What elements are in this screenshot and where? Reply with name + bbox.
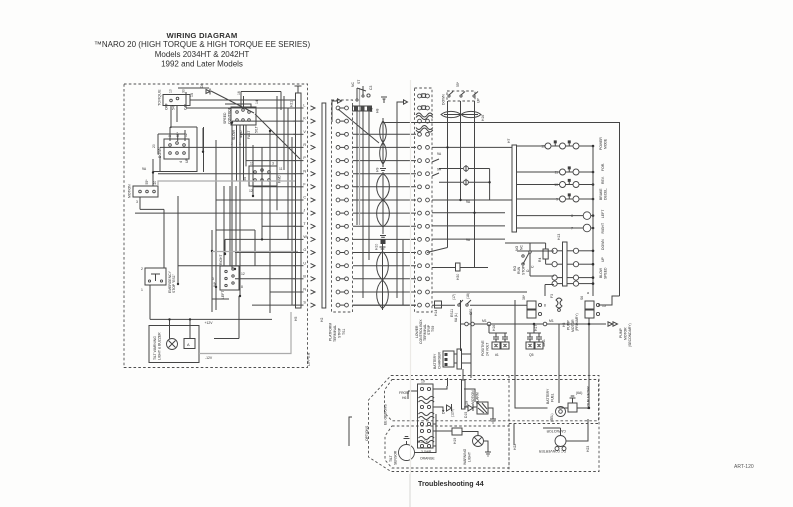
- junction dots upper box: [152, 121, 271, 320]
- label POWER MODE: [599, 137, 608, 150]
- svg-text:+12V: +12V: [205, 321, 214, 325]
- svg-text:9A: 9A: [466, 238, 471, 242]
- diode D15: [464, 404, 473, 418]
- label LOWER CONTROL BOX TERMINAL STRIP TS9: [415, 319, 435, 344]
- svg-text:Models 2034HT & 2042HT: Models 2034HT & 2042HT: [155, 50, 250, 59]
- OPTIONS outer dashed enclosure: [369, 376, 600, 472]
- wires motion alarm: [464, 389, 493, 414]
- svg-text:a: a: [587, 291, 589, 295]
- connector H13 bar: [557, 234, 567, 286]
- connector H14: [434, 301, 442, 316]
- svg-text:ORANGE: ORANGE: [420, 457, 435, 461]
- svg-text:SENSOR: SENSOR: [394, 450, 398, 465]
- relay row LEFT: [517, 212, 594, 220]
- svg-text:CAPACITOR: CAPACITOR: [546, 429, 566, 433]
- svg-text:PLATFORM: PLATFORM: [329, 323, 333, 341]
- svg-text:N: N: [303, 169, 306, 173]
- svg-text:H7: H7: [507, 139, 511, 143]
- svg-text:12: 12: [241, 272, 245, 276]
- relay row BRAKE DECEL: [517, 193, 594, 202]
- wires limit switches down: [427, 101, 475, 268]
- svg-text:H30: H30: [456, 274, 460, 280]
- module BATTERY CHARGER: [433, 349, 471, 369]
- svg-text:UP: UP: [185, 158, 189, 163]
- switch FWD-REV: [243, 162, 283, 194]
- svg-text:H5: H5: [294, 317, 298, 321]
- svg-text:WARNING: WARNING: [463, 448, 467, 465]
- label FROM H6: [399, 391, 409, 400]
- svg-text:DC CONVERTER: DC CONVERTER: [538, 449, 566, 453]
- svg-text:UP: UP: [601, 257, 605, 262]
- svg-text:LEFT: LEFT: [221, 291, 225, 299]
- svg-text:55*: 55*: [145, 179, 149, 185]
- twisted pair H9 middle: [376, 168, 390, 234]
- twisted pair H10 lower: [375, 244, 389, 310]
- non-EE options dashed enclosure: [385, 426, 509, 468]
- svg-text:MOTION: MOTION: [128, 184, 132, 198]
- svg-text:RIGHT: RIGHT: [601, 223, 605, 234]
- svg-text:G: G: [303, 248, 306, 252]
- scan fold line: [409, 474, 411, 507]
- limit switch MID: [456, 81, 465, 97]
- diode D8: [200, 84, 210, 95]
- relay row REV: [517, 179, 594, 188]
- svg-text:™NARO 20 (HIGH TORQUE & HIGH T: ™NARO 20 (HIGH TORQUE & HIGH TORQUE EE S…: [94, 40, 311, 49]
- svg-text:MOTOR: MOTOR: [624, 327, 628, 340]
- fuse F3 pump motor H6: [550, 294, 579, 332]
- svg-text:S: S: [303, 301, 306, 305]
- svg-text:H13: H13: [557, 234, 561, 240]
- arrow pump motor secondary: [608, 322, 632, 347]
- wire rows to connector H7: [432, 146, 512, 239]
- svg-text:14: 14: [190, 93, 194, 97]
- connector H21 bar: [290, 86, 302, 308]
- svg-text:(TEL): (TEL): [550, 414, 554, 422]
- wire mesh upper control box: [135, 88, 300, 339]
- connector H7 bar: [507, 139, 517, 232]
- connector H19: [462, 369, 469, 409]
- svg-text:#1: #1: [495, 353, 499, 357]
- svg-text:W: W: [303, 235, 307, 239]
- module DC CONVERTER: [538, 429, 590, 453]
- svg-text:16: 16: [237, 91, 241, 95]
- svg-text:H3: H3: [370, 108, 374, 112]
- svg-text:TS9: TS9: [431, 326, 435, 332]
- svg-text:(17): (17): [452, 294, 456, 300]
- svg-text:(6A): (6A): [576, 391, 582, 395]
- svg-text:M1: M1: [482, 319, 487, 323]
- svg-text:Troubleshooting: Troubleshooting: [418, 480, 474, 488]
- svg-text:H14: H14: [434, 310, 438, 316]
- lamp WARNING LIGHT: [462, 432, 491, 466]
- svg-text:LEFT: LEFT: [601, 210, 605, 218]
- svg-text:H10: H10: [375, 244, 379, 250]
- svg-text:DOWN: DOWN: [601, 239, 605, 250]
- svg-text:ART-120: ART-120: [734, 464, 754, 470]
- connector H19: [452, 428, 462, 444]
- EE OPTIONS dashed enclosure: [385, 380, 599, 421]
- svg-text:5/1T: 5/1T: [255, 126, 259, 133]
- svg-text:3: 3: [136, 200, 138, 204]
- relay row RIGHT: [517, 224, 594, 232]
- connector H2 bar: [320, 103, 326, 322]
- svg-text:BATTERY: BATTERY: [546, 388, 550, 404]
- switch TORQUE: [157, 89, 195, 110]
- wires battery fuel cluster: [515, 378, 590, 409]
- svg-text:D15: D15: [464, 412, 468, 418]
- svg-text:NC: NC: [520, 245, 524, 250]
- svg-text:SLOW: SLOW: [232, 129, 236, 140]
- svg-text:1: 1: [141, 288, 143, 292]
- upper control box dashed enclosure: [124, 84, 308, 368]
- connector H3: [353, 106, 374, 112]
- svg-text:9A: 9A: [437, 168, 442, 172]
- wire options left feeds: [349, 386, 452, 446]
- svg-text:FOR.: FOR.: [601, 163, 605, 171]
- limit switch UP: [473, 92, 481, 104]
- switch MOTION: [128, 167, 159, 204]
- svg-text:14: 14: [255, 100, 259, 104]
- twisted pair H8 upper: [376, 109, 387, 167]
- svg-text:NC: NC: [351, 82, 355, 87]
- svg-text:(SECONDARY): (SECONDARY): [628, 323, 632, 347]
- svg-text:STOP: STOP: [522, 265, 526, 275]
- connector H21 pin ticks: [294, 108, 304, 305]
- svg-text:BATTERY: BATTERY: [433, 353, 437, 369]
- svg-text:TILT WARNING: TILT WARNING: [153, 336, 157, 360]
- svg-text:ST: ST: [357, 80, 361, 84]
- svg-text:MODE: MODE: [604, 138, 608, 149]
- svg-text:8: 8: [241, 285, 243, 289]
- svg-text:WIRING DIAGRAM: WIRING DIAGRAM: [167, 31, 238, 40]
- label BLOW SPEED: [599, 267, 608, 279]
- svg-text:F3: F3: [550, 294, 554, 298]
- H13 contact rows: [552, 248, 594, 286]
- svg-text:H9: H9: [376, 168, 380, 172]
- svg-text:B: B: [303, 274, 306, 278]
- svg-text:44: 44: [476, 480, 484, 488]
- switch DOWN-UP: [152, 131, 189, 163]
- svg-text:36*: 36*: [522, 294, 526, 300]
- switch SPEED CONTROL: [223, 91, 259, 146]
- svg-text:H6: H6: [402, 396, 406, 400]
- svg-text:LIGHT & BUZZER: LIGHT & BUZZER: [158, 332, 162, 360]
- label PLATFORM TERMINAL STRIP TS1: [329, 323, 347, 342]
- svg-text:A: A: [187, 342, 190, 347]
- connector H21 pin letters: [303, 104, 307, 305]
- diagonal harness wire: [338, 109, 379, 143]
- svg-text:R4: R4: [538, 258, 542, 262]
- svg-text:H16: H16: [492, 325, 496, 331]
- svg-text:OFF: OFF: [165, 103, 169, 110]
- wire S6 loop: [598, 296, 620, 305]
- wires H13 left feeds: [517, 243, 554, 296]
- limit switches DOWN-UP dashed box: [447, 91, 475, 101]
- ground braid A-B: [380, 169, 386, 171]
- fuse block NEG: [526, 324, 546, 357]
- svg-text:BLACK: BLACK: [417, 440, 429, 444]
- svg-text:U: U: [303, 261, 306, 265]
- svg-text:RUN: RUN: [517, 266, 521, 274]
- svg-text:(12V): (12V): [451, 409, 455, 417]
- svg-text:DECEL.: DECEL.: [604, 188, 608, 200]
- svg-text:POWER: POWER: [599, 137, 603, 150]
- label BRAKE DECEL: [599, 188, 608, 200]
- svg-text:ALARM: ALARM: [476, 392, 480, 404]
- connector H30: [432, 263, 488, 280]
- svg-text:TERMINAL: TERMINAL: [333, 325, 337, 342]
- svg-text:9A: 9A: [466, 200, 471, 204]
- svg-text:H8: H8: [376, 109, 380, 113]
- svg-text:NO: NO: [515, 246, 519, 251]
- svg-text:V: V: [303, 130, 306, 134]
- terminal strip TS1 dashed outline: [332, 100, 353, 312]
- svg-text:CB1: CB1: [469, 308, 473, 315]
- svg-text:L: L: [303, 104, 305, 108]
- wire gray mid vertical: [359, 88, 361, 225]
- svg-text:SPEED: SPEED: [604, 267, 608, 279]
- svg-text:19: 19: [421, 380, 425, 384]
- svg-text:TORQUE: TORQUE: [157, 89, 162, 106]
- svg-text:RIGHT: RIGHT: [219, 254, 223, 265]
- svg-text:H21: H21: [290, 101, 294, 107]
- svg-text:SPEED: SPEED: [223, 112, 227, 124]
- wire verticals mid harness: [357, 102, 403, 305]
- relay row FOR: [517, 166, 594, 175]
- capacitor C3: [367, 86, 373, 98]
- svg-text:S6: S6: [580, 296, 584, 300]
- wire lower rows: [353, 292, 606, 386]
- switch RIGHT-LEFT 84*: [212, 254, 245, 299]
- sensor TILT SENSOR: [389, 437, 436, 466]
- svg-text:9A: 9A: [142, 167, 147, 171]
- svg-text:TS1: TS1: [342, 329, 346, 335]
- junction block mid braid: [381, 239, 386, 244]
- svg-text:-12V: -12V: [205, 356, 213, 360]
- svg-text:55*: 55*: [456, 81, 460, 87]
- svg-text:DOWN: DOWN: [442, 94, 446, 105]
- svg-text:2: 2: [141, 267, 143, 271]
- svg-text:6A (L): 6A (L): [454, 313, 458, 322]
- gauge BATTERY FUEL: [546, 388, 566, 422]
- contactor S6: [580, 296, 606, 318]
- svg-text:TILT: TILT: [389, 455, 393, 462]
- svg-text:P: P: [303, 156, 306, 160]
- limit switch DOWN: [442, 92, 454, 106]
- svg-text:N: N: [303, 288, 306, 292]
- svg-text:H16: H16: [481, 115, 485, 121]
- svg-text:54*: 54*: [172, 104, 176, 110]
- label M1 terminals: [482, 319, 554, 326]
- svg-text:STOP "ES1": STOP "ES1": [172, 273, 176, 293]
- svg-text:PUMP: PUMP: [567, 319, 571, 330]
- svg-text:STRIP: STRIP: [338, 327, 342, 338]
- svg-text:CHARGER: CHARGER: [438, 351, 442, 369]
- wires dc converter: [543, 419, 588, 441]
- svg-text:10: 10: [169, 89, 173, 93]
- switch EMERGENCY STOP ES1: [141, 267, 176, 293]
- svg-text:M1: M1: [549, 319, 554, 323]
- switch ES11: [450, 294, 463, 322]
- svg-text:BLOW: BLOW: [599, 267, 603, 278]
- svg-text:R: R: [303, 143, 306, 147]
- wire gray long run B: [212, 251, 298, 253]
- svg-text:11: 11: [279, 167, 283, 171]
- svg-text:Q5: Q5: [529, 353, 534, 357]
- svg-text:C3: C3: [369, 86, 373, 90]
- bus right vertical: [587, 146, 593, 296]
- twisted pair H16: [441, 111, 485, 121]
- svg-text:MOTION: MOTION: [471, 390, 475, 404]
- terminal strip TS9 terminal rows: [418, 94, 430, 307]
- terminal block options: [418, 380, 435, 449]
- svg-text:8: 8: [544, 304, 546, 308]
- switch STOP-RUN: [513, 245, 535, 275]
- labels 9A feeders: [437, 152, 471, 242]
- svg-text:FWD: FWD: [278, 175, 282, 183]
- svg-text:C: C: [303, 196, 306, 200]
- svg-text:POSITIVE: POSITIVE: [481, 340, 485, 356]
- svg-text:(18): (18): [466, 293, 470, 299]
- svg-text:D4: D4: [442, 410, 446, 414]
- resistor R4: [505, 243, 552, 264]
- svg-text:H6: H6: [562, 323, 566, 327]
- harness arrow symbol A: [332, 99, 342, 122]
- svg-text:LIGHT: LIGHT: [468, 452, 472, 462]
- svg-text:CONTROL: CONTROL: [228, 107, 232, 124]
- svg-text:4: 4: [179, 161, 183, 163]
- svg-text:H19: H19: [453, 438, 457, 444]
- svg-text:1992 and Later Models: 1992 and Later Models: [161, 60, 243, 69]
- svg-text:9A: 9A: [437, 152, 442, 156]
- wire gray long run C: [199, 312, 291, 354]
- relay row POWER MODE: [517, 140, 594, 149]
- svg-text:H17: H17: [534, 325, 538, 331]
- ground motion alarm: [490, 414, 496, 423]
- svg-text:24 VOLT: 24 VOLT: [486, 343, 490, 356]
- svg-text:OPTIONS: OPTIONS: [365, 425, 369, 441]
- module TILT WARNING LIGHT & BUZZER: [149, 326, 199, 363]
- svg-text:UP: UP: [477, 98, 481, 103]
- terminal strip TS1 terminal rows: [336, 106, 348, 307]
- svg-text:3: 3: [272, 162, 274, 166]
- lower control box outline: [383, 123, 620, 297]
- svg-text:K: K: [303, 117, 306, 121]
- module MOTION ALARM: [471, 390, 488, 414]
- harness arrows column: [311, 106, 316, 307]
- svg-text:REV.: REV.: [601, 176, 605, 184]
- ground braid C top: [380, 247, 386, 249]
- svg-text:EE OPTIONS: EE OPTIONS: [384, 404, 388, 425]
- wire H22 run: [447, 378, 449, 386]
- switch NC-ST: [351, 80, 366, 101]
- diode D4: [442, 404, 455, 417]
- ground symbol braid top: [381, 97, 387, 103]
- meter HOUR METER: [568, 386, 591, 412]
- breaker CB1: [466, 293, 473, 315]
- harness arrow symbol B: [397, 100, 408, 112]
- svg-text:30: 30: [182, 89, 186, 93]
- wire rows platform to lower strip: [353, 134, 416, 305]
- terminal strip TS9 twist symbols: [416, 113, 433, 132]
- svg-text:J: J: [303, 209, 305, 213]
- svg-text:H2: H2: [320, 318, 324, 322]
- contactor 36*: [522, 294, 546, 318]
- fuse block POSITIVE 24 VOLT: [481, 324, 509, 357]
- svg-text:20: 20: [152, 144, 156, 148]
- svg-text:UPPER: UPPER: [306, 352, 311, 366]
- svg-text:BRAKE: BRAKE: [599, 188, 603, 200]
- svg-text:(PRIMARY): (PRIMARY): [575, 313, 579, 331]
- svg-text:H23: H23: [586, 446, 590, 452]
- svg-text:12: 12: [249, 189, 253, 193]
- svg-text:FUEL: FUEL: [551, 393, 555, 402]
- terminal strip TS9 dashed outline: [415, 88, 433, 312]
- wire gray long run A: [158, 181, 295, 186]
- svg-text:20: 20: [153, 181, 157, 185]
- options divider dashed: [508, 376, 510, 472]
- svg-text:D8: D8: [200, 84, 204, 88]
- svg-text:PUMP: PUMP: [619, 327, 623, 338]
